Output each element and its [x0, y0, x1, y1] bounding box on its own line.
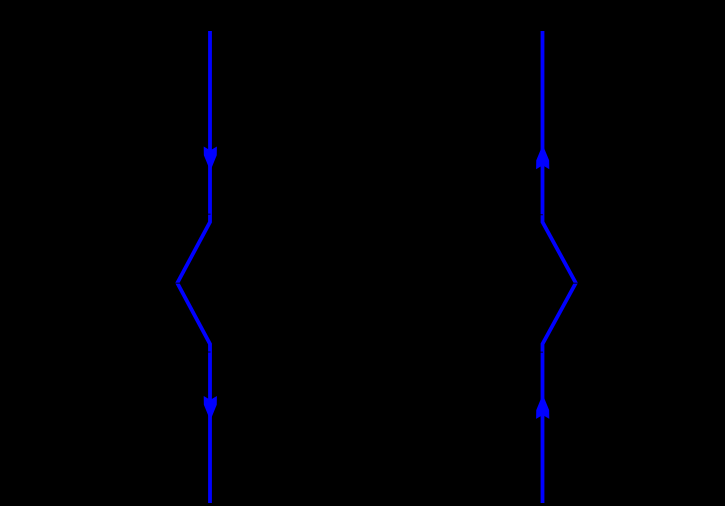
wire W1 (left conductor, current downward) — [177, 31, 210, 503]
junction seam W1 upper — [208, 213, 211, 215]
wire W2 (right conductor, current upward) — [543, 31, 576, 503]
current arrow I2 lower (upward) — [536, 394, 549, 419]
current arrow I2 upper (upward) — [536, 145, 549, 170]
junction seam W1 lower — [208, 351, 211, 353]
current arrow I1 upper (downward) — [204, 147, 217, 172]
junction seam W1 vertex — [174, 282, 180, 284]
junction seam W2 lower — [540, 351, 543, 353]
junction seam W2 upper — [540, 214, 543, 216]
junction seam W2 vertex — [573, 282, 579, 284]
current arrow I1 lower (downward) — [204, 396, 217, 421]
